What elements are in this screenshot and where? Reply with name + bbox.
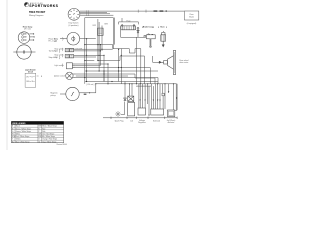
voltage regulator box (138, 108, 146, 115)
headlamp H1 (18, 32, 30, 44)
pickup connector dash (84, 94, 87, 95)
svg-text:rear: rear (54, 57, 58, 59)
solenoid box (151, 109, 164, 115)
svg-text:B/W: B/W (105, 24, 109, 26)
light switch wires (75, 63, 108, 65)
key switch wires (80, 11, 140, 15)
svg-text:Red / White Stripe: Red / White Stripe (16, 135, 30, 138)
svg-text:(4 position): (4 position) (69, 24, 79, 27)
rear accessory box (184, 11, 198, 20)
svg-text:B: B (41, 76, 43, 78)
headlamp stubs (30, 33, 35, 41)
magneto wires (60, 38, 96, 40)
stop switch rear wires (74, 54, 104, 56)
svg-text:Solenoid: Solenoid (153, 121, 160, 123)
svg-text:Bu: Bu (12, 141, 14, 143)
key switch connector (87, 10, 89, 16)
spark burst SP1 (115, 111, 121, 117)
actuator link (175, 109, 177, 111)
table grid (11, 125, 63, 143)
baseline (103, 117, 177, 119)
junction dots (84, 44, 174, 84)
svg-text:Orange / Red Stripe: Orange / Red Stripe (42, 138, 57, 141)
fuse F1 (121, 25, 136, 30)
svg-text:(HI / LO): (HI / LO) (24, 29, 31, 31)
detail side mark (37, 75, 39, 77)
ignition switch wires (76, 73, 135, 75)
small mark box (162, 93, 164, 96)
svg-text:Horn: Horn (160, 27, 165, 29)
trunk horizontal upper (85, 18, 177, 87)
dot on pair (176, 97, 177, 98)
svg-text:Stator 12V 60W: Stator 12V 60W (70, 47, 82, 50)
pickup glyph (71, 92, 74, 96)
svg-text:Gray / White Stripe: Gray / White Stripe (42, 140, 56, 143)
ground G1 (149, 46, 152, 47)
logo emblem (24, 2, 29, 7)
wire to rear box (140, 10, 184, 12)
svg-text:WIRE LEGEND: WIRE LEGEND (12, 123, 26, 125)
svg-text:SPORTWORKS: SPORTWORKS (29, 4, 58, 8)
ignition coil IC1 (128, 103, 135, 116)
svg-text:Brake: Brake (189, 16, 194, 18)
X box CR1 (128, 96, 134, 101)
pickup wires (60, 93, 96, 94)
stop switch front connector (65, 48, 73, 51)
ignition switch IS1 (66, 72, 76, 79)
svg-text:front: front (54, 50, 58, 53)
stop switch front wires (74, 48, 113, 50)
relay drop bar (150, 39, 152, 46)
tail lamp T1 (17, 45, 31, 59)
right bundle verticals (139, 84, 177, 115)
headlamp bulbs (22, 33, 27, 41)
connector dashes on wire (154, 10, 158, 11)
key switch KS1 (68, 8, 80, 20)
svg-text:Ignition switch: Ignition switch (54, 74, 65, 77)
horn HN1 (161, 32, 166, 42)
table rows right (38, 125, 57, 144)
fuse bottom wire (121, 30, 145, 38)
fuse bracket (119, 22, 139, 25)
svg-text:White / Black Stripe: White / Black Stripe (42, 125, 57, 128)
svg-text:OFF: OFF (26, 81, 29, 83)
diode D1 (137, 27, 139, 37)
svg-text:Green / White Stripe: Green / White Stripe (16, 130, 31, 133)
svg-text:Blue / White Stripe: Blue / White Stripe (16, 140, 30, 143)
horn label (158, 26, 166, 28)
rear connector wire arrow (158, 61, 164, 63)
svg-text:Brake lamp: Brake lamp (143, 27, 154, 29)
light switch LS1 (66, 63, 75, 69)
small connector block (98, 28, 104, 35)
svg-text:Spark Plug: Spark Plug (115, 121, 124, 123)
svg-text:(if equipped): (if equipped) (187, 23, 197, 25)
svg-text:Regulator: Regulator (138, 121, 146, 124)
brake relay K1 (144, 34, 155, 39)
svg-text:Revised 10/04: Revised 10/04 (57, 144, 67, 146)
svg-text:TREX TM 4WT: TREX TM 4WT (29, 11, 46, 14)
svg-text:White: White (16, 133, 20, 136)
svg-text:Actuator: Actuator (168, 121, 175, 124)
svg-text:Wiring Diagram: Wiring Diagram (29, 14, 44, 17)
magneto M1 (67, 32, 80, 45)
mesh step wires (104, 49, 158, 84)
diode CR glyph (124, 98, 127, 101)
brake relay label (142, 26, 153, 28)
magneto glyph (72, 36, 75, 42)
pickup coil P1 (66, 87, 79, 100)
svg-text:Fuse: Fuse (127, 20, 131, 22)
tail lamp wire (13, 50, 35, 53)
legend table (11, 121, 63, 142)
svg-text:[ CDI unit ]: [ CDI unit ] (86, 83, 95, 86)
page fold line (6, 0, 8, 150)
horn ground arrow (162, 41, 164, 47)
svg-text:R/W: R/W (93, 25, 97, 27)
svg-text:Blk / White Stripe: Blk / White Stripe (42, 135, 55, 138)
trunk verticals (85, 18, 137, 93)
inline connector ticks (138, 10, 146, 13)
light switch detail box (25, 73, 36, 87)
svg-text:pickup: pickup (51, 95, 56, 97)
X box feeds (125, 82, 132, 99)
rear connector J1 (164, 50, 176, 74)
svg-text:ON: ON (26, 76, 29, 78)
svg-text:Coil: Coil (130, 121, 134, 123)
actuator box (167, 110, 174, 117)
svg-text:drive motor: drive motor (179, 61, 188, 64)
spark plug wire (121, 102, 125, 115)
table rows left (12, 126, 31, 144)
stop switch rear connector (65, 55, 73, 58)
svg-text:Brown / White Stripe: Brown / White Stripe (16, 127, 31, 130)
svg-text:Grn / Red Stripe: Grn / Red Stripe (42, 133, 54, 136)
bundle arrowheads (140, 91, 170, 117)
